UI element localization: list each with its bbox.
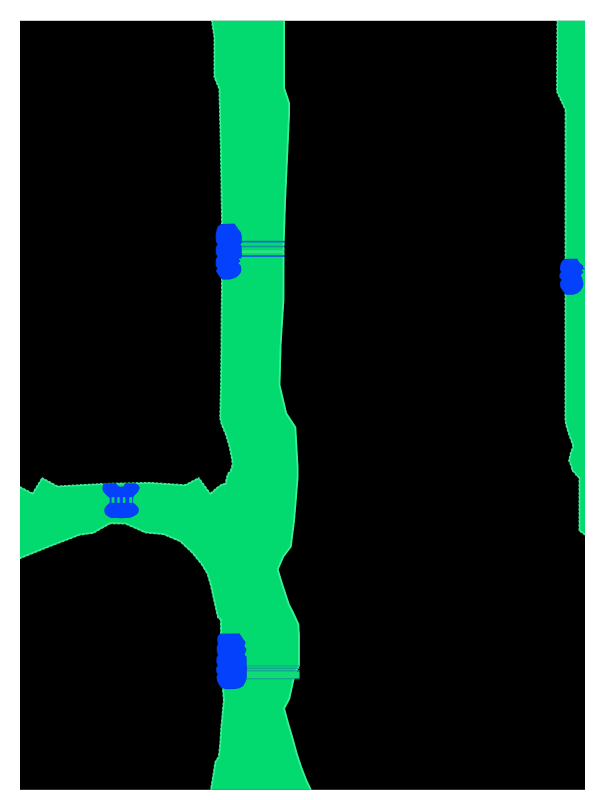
route line: teal polyline east of marker 1 [240,246,285,248]
marker 3 waist slit 4 (green gap) [129,497,132,503]
marker 3 waist slit 2 (green gap) [117,497,119,503]
traffic marker 3: blue butterfly blob on west branch [103,484,140,518]
marker 3 waist slit 1 (green gap) [112,497,115,503]
route line: short blue tick east of marker 2 [582,268,585,270]
route line: blue polyline east of marker 1 [240,241,285,243]
road casing: dashed dark edge, west branch bottom and lower avenue left side [14,524,223,796]
route line: light green stripe east of marker 4 [245,672,300,678]
traffic marker 2: blue incident blob on east boulevard [560,259,583,294]
traffic marker 1: blue incident blob on central avenue [216,224,241,279]
road highlight: bright inner edge of central avenue [14,14,315,796]
route line: light green stripe east of marker 1 [240,250,285,253]
road: east boulevard (green traffic flow) [556,14,587,537]
marker 3 waist slit 3 (green gap) [123,497,125,503]
route line: blue polyline 2 east of marker 1 [240,255,285,257]
road: central avenue with west branch (green traffic flow) [14,14,315,796]
route line: teal polylines east of marker 4 [245,665,300,666]
road casing: dashed dark edge, central avenue left side and west branch top [14,14,232,493]
traffic marker 4: blue incident blob on lower central avenue [217,634,247,689]
road casing: dashed dark edge, east boulevard left side [556,14,585,536]
road highlight: bright inner edge of east boulevard [556,14,587,537]
